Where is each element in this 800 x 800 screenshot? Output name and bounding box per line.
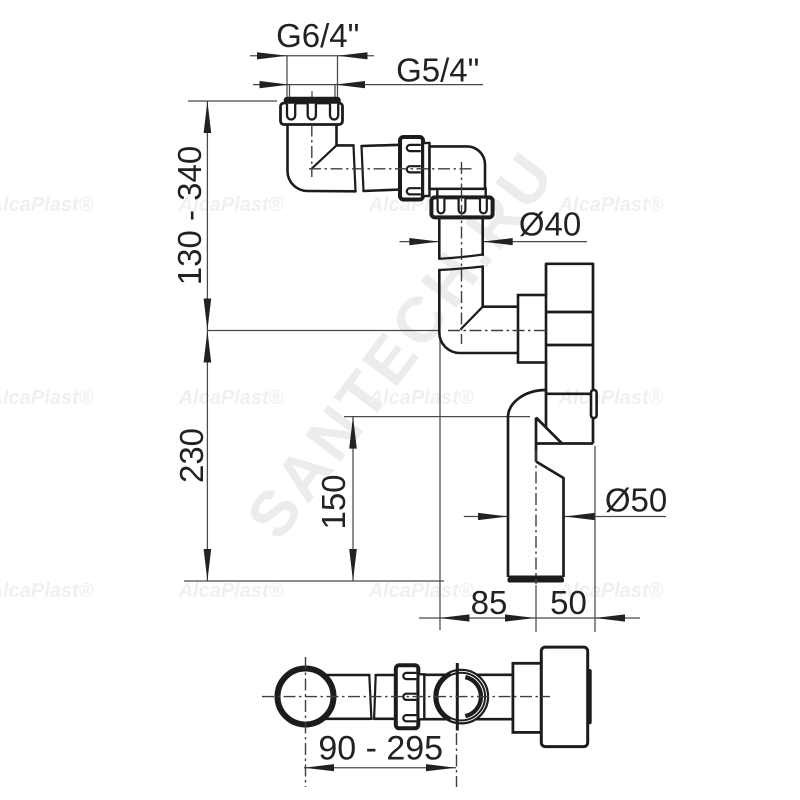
svg-text:AlcaPlast®: AlcaPlast®	[0, 387, 94, 409]
extension x536	[535, 585, 537, 632]
body division line 2	[546, 344, 593, 347]
extension x440	[439, 336, 441, 630]
elbow E3 lower left	[439, 307, 518, 353]
body side small rect bottom view	[513, 663, 541, 732]
D40 vertical pipe lower segment	[439, 267, 482, 333]
svg-text:130 - 340: 130 - 340	[171, 146, 208, 285]
arrow G5/4 left	[260, 81, 290, 88]
arrow 90-295 right	[426, 764, 456, 771]
svg-text:AlcaPlast®: AlcaPlast®	[178, 387, 284, 409]
extension lines G6/4	[286, 56, 288, 98]
siphon body outline	[536, 264, 593, 444]
centerline circle1 vertical	[305, 657, 307, 787]
body division line 3	[547, 392, 592, 395]
elbow E2 top right	[430, 146, 486, 189]
nut N3 castellation slots	[438, 199, 487, 214]
nut N3 on D40 vertical pipe	[431, 197, 492, 217]
nut N1 castellation slots	[287, 104, 338, 120]
bottom view pipe segment 1	[300, 675, 371, 719]
extension lines G5/4	[289, 85, 291, 98]
centerline elbow1 vertical	[311, 125, 313, 178]
watermark AlcaPlast grid	[0, 194, 664, 602]
nut N1 G6/4 top: body	[281, 103, 343, 125]
extension line y416.6	[344, 416, 530, 418]
arrow G6/4 left	[257, 52, 287, 59]
centerline outlet vertical	[535, 450, 537, 584]
arrow 130-340 bottom	[204, 299, 212, 331]
svg-text:AlcaPlast®: AlcaPlast®	[368, 580, 474, 602]
svg-text:230: 230	[173, 428, 210, 483]
arrow 50 right	[595, 614, 625, 621]
svg-text:150: 150	[315, 474, 352, 529]
svg-text:AlcaPlast®: AlcaPlast®	[558, 387, 664, 409]
watermark SANTECH.RU	[233, 137, 570, 551]
centerline circle2 extension vertical	[456, 733, 458, 787]
nut N4 castellation slots	[403, 673, 416, 721]
dim line 90-295	[304, 767, 456, 769]
dim line G6/4	[250, 55, 374, 57]
pipe break lines	[439, 255, 482, 271]
arrow G5/4 right	[335, 81, 365, 88]
D40 vertical pipe upper segment	[439, 217, 482, 258]
arrow D40 right	[483, 238, 513, 245]
ring circle2 bottom view	[435, 663, 489, 731]
svg-text:AlcaPlast®: AlcaPlast®	[368, 387, 474, 409]
body division line 1	[546, 311, 593, 314]
elbow E3 miter seam	[461, 307, 483, 329]
BOTTOM VIEW	[300, 675, 513, 719]
collar C1 after nut N2	[423, 143, 430, 196]
arrow D50 left	[478, 513, 508, 520]
svg-text:85: 85	[471, 584, 508, 621]
collar C3 bottom view	[418, 674, 424, 719]
ring circle1 bottom view	[278, 669, 334, 725]
dim line 85/50	[419, 617, 640, 619]
clip on body right edge	[591, 390, 597, 418]
dim line G5/4	[253, 84, 483, 86]
arrow 85 left	[439, 614, 469, 621]
bottom view pipe segment 3 into body	[424, 675, 513, 719]
MAIN VIEW DRAWING	[288, 125, 519, 354]
arrow 150 bottom	[349, 549, 357, 581]
arrow 230 bottom	[204, 549, 212, 581]
svg-text:AlcaPlast®: AlcaPlast®	[178, 580, 284, 602]
reference line y330.5	[207, 330, 439, 332]
svg-text:50: 50	[550, 584, 587, 621]
centerline D40 pipe vertical	[461, 162, 463, 344]
dimension thin lines	[184, 56, 666, 768]
arrow 90-295 left	[304, 764, 334, 771]
outlet curve and D50 pipe	[508, 390, 564, 577]
nut N2 G5/4 on horizontal pipe	[400, 137, 423, 200]
dim line 130-340 / 230 vertical	[206, 101, 208, 581]
ARROWS	[204, 52, 625, 771]
body bottom edge	[536, 442, 593, 445]
arrow G6/4 right	[338, 52, 368, 59]
svg-text:AlcaPlast®: AlcaPlast®	[0, 580, 94, 602]
outlet end dark bar bottom view	[588, 669, 592, 724]
center tick above nut	[311, 91, 313, 98]
arrow D50 right	[565, 513, 595, 520]
svg-text:G6/4": G6/4"	[276, 17, 359, 54]
svg-text:Ø40: Ø40	[519, 206, 581, 243]
dim line D50	[464, 516, 508, 518]
arrow 130-340 top	[204, 101, 212, 133]
collar C2 above nut N3	[437, 189, 485, 198]
baseline y581	[184, 580, 444, 582]
centerline lower elbow horizontal	[448, 330, 546, 332]
centerline top pipe horizontal	[309, 168, 475, 170]
arrow D40 left	[409, 238, 439, 245]
arrow 85 right	[505, 614, 535, 621]
arrow 150 top	[349, 417, 357, 449]
svg-text:90 - 295: 90 - 295	[318, 730, 443, 768]
connector piece at body inlet	[518, 295, 546, 363]
svg-text:AlcaPlast®: AlcaPlast®	[0, 194, 94, 216]
arrow 230 top	[204, 331, 212, 363]
extension line top y101	[188, 100, 277, 102]
extension x595	[594, 446, 596, 632]
centerline bottom view horizontal	[262, 696, 550, 698]
pipe joint lines top pipe	[354, 145, 364, 191]
svg-text:Ø50: Ø50	[605, 482, 667, 519]
svg-text:G5/4": G5/4"	[396, 52, 479, 89]
elbow E1 tube below top nut	[288, 125, 401, 192]
body side large rect bottom view	[541, 647, 587, 747]
nut N4 bottom view	[396, 665, 419, 728]
elbow E1 miter seam	[312, 145, 337, 168]
dim line D40	[400, 241, 440, 243]
dim line 150 vertical	[352, 417, 354, 581]
bottom view pipe segment 2	[374, 675, 398, 719]
nut N2 castellation slots	[407, 145, 421, 195]
bottom view pipe joint lines	[369, 675, 375, 719]
nut N1 G6/4 top: cap	[285, 98, 341, 104]
centerlines dash-dot	[262, 125, 550, 788]
D50 pipe end rim	[508, 578, 565, 583]
